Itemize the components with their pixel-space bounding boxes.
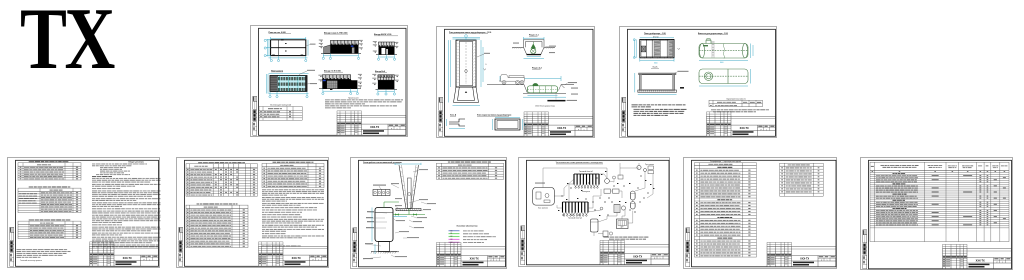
svg-text:В0: В0 bbox=[451, 230, 453, 232]
svg-text:Р: Р bbox=[821, 260, 823, 262]
svg-text:В2: В2 bbox=[451, 236, 453, 238]
svg-text:1500 Объем дезраствора: 1500 Объем дезраствора bbox=[535, 105, 555, 107]
svg-text:ХХХ-ТХ: ХХХ-ТХ bbox=[470, 257, 479, 260]
svg-text:ХХХ-ТХ: ХХХ-ТХ bbox=[370, 125, 379, 128]
svg-text:охлаждение: охлаждение bbox=[581, 191, 589, 193]
svg-text:1: 1 bbox=[318, 259, 319, 261]
svg-text:Примечания:: Примечания: bbox=[348, 97, 359, 99]
svg-text:Условные обозначения: Условные обозначения bbox=[457, 225, 478, 228]
svg-text:1: 1 bbox=[149, 259, 150, 261]
svg-text:Р: Р bbox=[144, 259, 146, 261]
svg-text:1: 1 bbox=[584, 129, 585, 131]
svg-text:ХХХ-ТХ: ХХХ-ТХ bbox=[292, 257, 301, 260]
svg-text:Экспликация помещений: Экспликация помещений bbox=[270, 103, 291, 106]
svg-text:1: 1 bbox=[496, 260, 497, 262]
svg-text:ХХХ-ТХ: ХХХ-ТХ bbox=[740, 127, 749, 130]
svg-text:ЩИТ: ЩИТ bbox=[620, 227, 623, 229]
svg-text:Характеристика емкости: Характеристика емкости bbox=[726, 98, 745, 100]
svg-text:Р: Р bbox=[491, 260, 493, 262]
svg-text:Танковый блок №2: Танковый блок №2 bbox=[567, 217, 581, 220]
svg-text:Танковый блок №1: Танковый блок №1 bbox=[578, 170, 592, 173]
svg-text:8000: 8000 bbox=[720, 62, 724, 64]
svg-text:1: 1 bbox=[397, 128, 398, 130]
svg-text:В3: В3 bbox=[451, 239, 453, 241]
svg-text:ХХХ-ТХ: ХХХ-ТХ bbox=[557, 126, 566, 129]
svg-text:ХХХ-ТХ: ХХХ-ТХ bbox=[800, 257, 809, 260]
svg-text:ХХХ-ТХ: ХХХ-ТХ bbox=[633, 255, 642, 258]
svg-text:Бокс приемки: Бокс приемки bbox=[538, 208, 548, 210]
svg-text:1: 1 bbox=[766, 129, 767, 131]
svg-text:1: 1 bbox=[1002, 262, 1003, 264]
svg-text:1: 1 bbox=[659, 258, 660, 260]
svg-text:Общие указания: Общие указания bbox=[128, 161, 143, 163]
svg-text:Б: Б bbox=[486, 64, 488, 66]
svg-text:Главный инженер проекта: Главный инженер проекта bbox=[20, 259, 42, 262]
svg-text:ХХХ-ТХ: ХХХ-ТХ bbox=[123, 257, 132, 260]
svg-text:6000: 6000 bbox=[654, 63, 658, 65]
svg-text:В4: В4 bbox=[451, 242, 453, 244]
svg-text:Р: Р bbox=[654, 258, 656, 260]
svg-text:Пует приемки: Пует приемки bbox=[645, 164, 654, 166]
svg-text:ХХХ-ТХ: ХХХ-ТХ bbox=[976, 259, 985, 262]
svg-text:В1: В1 bbox=[451, 233, 453, 235]
svg-text:Р: Р bbox=[997, 262, 999, 264]
svg-text:Р: Р bbox=[313, 259, 315, 261]
svg-text:1: 1 bbox=[826, 260, 827, 262]
